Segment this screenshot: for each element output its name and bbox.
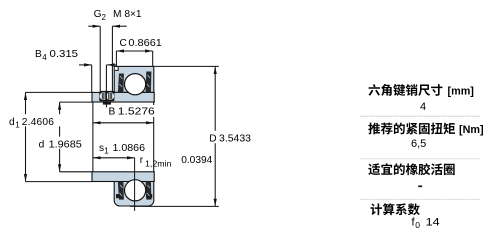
arrowheads s1 bbox=[93, 156, 101, 159]
svg-text:0.0394: 0.0394 bbox=[181, 155, 212, 166]
svg-text:1: 1 bbox=[15, 121, 20, 130]
dim d1 line bbox=[25, 92, 27, 181]
arrowheads D bbox=[214, 66, 217, 74]
dim G2 extension lines bbox=[99, 26, 101, 91]
svg-text:B: B bbox=[109, 107, 116, 118]
dim C extension lines bbox=[115, 51, 117, 66]
svg-text:0.8661: 0.8661 bbox=[128, 38, 162, 49]
dim B extension lines bbox=[92, 103, 94, 172]
svg-text:6,5: 6,5 bbox=[411, 138, 426, 150]
dim C line bbox=[116, 50, 152, 52]
svg-text:14: 14 bbox=[426, 216, 440, 228]
top half: inner ring band bbox=[92, 92, 154, 102]
arrowheads C bbox=[116, 49, 124, 52]
grub screw tab bbox=[103, 101, 111, 104]
svg-text:d: d bbox=[39, 139, 45, 150]
svg-text:D: D bbox=[209, 133, 216, 144]
top half: right seal bbox=[146, 72, 152, 93]
arrowheads d1 bbox=[24, 92, 27, 100]
svg-text:1.9685: 1.9685 bbox=[49, 139, 83, 150]
svg-text:1.0866: 1.0866 bbox=[113, 143, 146, 154]
svg-text:0: 0 bbox=[415, 220, 420, 230]
dim B line bbox=[93, 122, 154, 124]
svg-text:1,2min: 1,2min bbox=[145, 158, 172, 168]
arrowheads d bbox=[58, 102, 61, 110]
dim s1 line bbox=[93, 157, 135, 159]
dim B4 leader and extensions bbox=[79, 64, 92, 66]
svg-text:3.5433: 3.5433 bbox=[219, 133, 251, 144]
arrowheads B4 bbox=[84, 63, 92, 66]
heading: calculation factor bbox=[370, 203, 419, 215]
heading: suitable rubber ring bbox=[368, 163, 454, 175]
label d 1.9685 (with mask) bbox=[38, 137, 85, 149]
grub screw knurl circles bbox=[100, 92, 108, 100]
svg-text:C: C bbox=[120, 38, 127, 49]
dim d1 extension lines bbox=[26, 91, 93, 93]
dim D line bbox=[214, 66, 216, 130]
centerline through bottom ball bbox=[134, 158, 136, 211]
dim d extension lines bbox=[60, 101, 92, 103]
svg-text:M 8×1: M 8×1 bbox=[113, 9, 142, 20]
svg-text:2.4606: 2.4606 bbox=[22, 117, 54, 128]
svg-text:r: r bbox=[140, 155, 144, 166]
svg-text:G: G bbox=[94, 9, 102, 20]
dim D extension lines bbox=[154, 65, 219, 67]
heading: hex key size [mm] bbox=[368, 84, 442, 96]
bottom half: right seal bbox=[146, 182, 152, 200]
svg-text:1: 1 bbox=[104, 147, 109, 156]
label d1 2.4606 (with mask) bbox=[8, 114, 62, 126]
svg-text:0.315: 0.315 bbox=[50, 49, 79, 60]
svg-text:B: B bbox=[35, 49, 42, 60]
top half: seal groove notch at outer ring top-left corner bbox=[115, 67, 118, 70]
svg-text:[mm]: [mm] bbox=[448, 86, 474, 98]
separator line 3 bbox=[361, 199, 481, 201]
separator line 1 bbox=[361, 115, 481, 117]
svg-text:4: 4 bbox=[420, 101, 426, 113]
svg-text:[Nm]: [Nm] bbox=[459, 124, 484, 136]
grub screw body bbox=[99, 91, 114, 101]
top half: ball bbox=[125, 74, 146, 95]
seal speckles bottom bbox=[120, 185, 151, 196]
svg-text:1.5276: 1.5276 bbox=[118, 107, 155, 118]
top half: left seal bbox=[118, 74, 124, 93]
value dash bbox=[418, 185, 422, 187]
arrowheads G2 bbox=[93, 25, 101, 28]
bottom half: ball bbox=[125, 180, 146, 201]
bottom half: left seal bbox=[118, 182, 124, 200]
svg-text:d: d bbox=[9, 117, 15, 128]
dim d line bbox=[59, 102, 61, 172]
seal speckles top bbox=[120, 75, 151, 87]
separator line 2 bbox=[361, 158, 481, 160]
dim G2 arrow leaders bbox=[88, 25, 100, 27]
svg-text:4: 4 bbox=[42, 53, 47, 62]
top half: outer ring bbox=[114, 66, 154, 92]
bottom half: inner ring band bbox=[92, 172, 154, 182]
heading: recommended tightening torque [Nm] bbox=[368, 123, 455, 135]
svg-text:2: 2 bbox=[102, 13, 107, 22]
bottom half: outer ring bbox=[114, 182, 154, 207]
arrowheads B bbox=[93, 121, 101, 124]
